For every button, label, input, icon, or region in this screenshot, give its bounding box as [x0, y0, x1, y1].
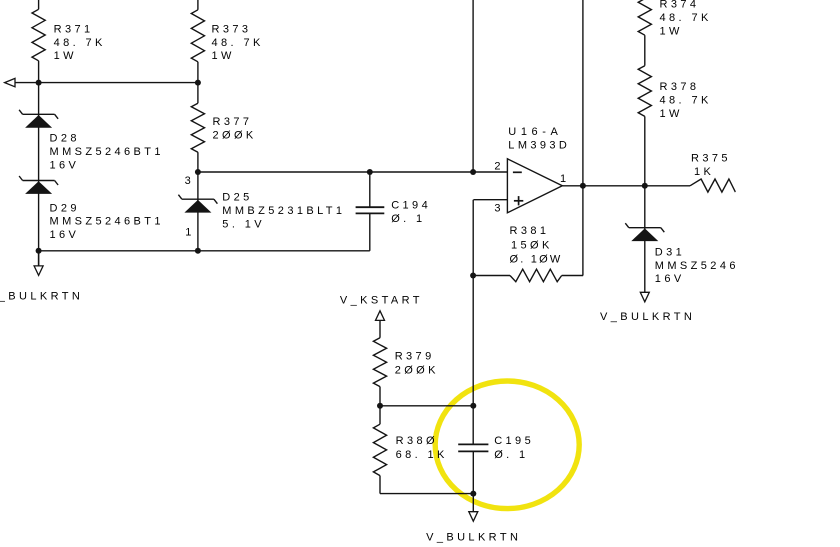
junction node 6 [36, 248, 42, 254]
svg-text:R381: R381 [510, 225, 550, 237]
junction node 9 [642, 183, 648, 189]
ground V_BULKRTN bottom [469, 512, 478, 522]
wire C194 top lead [369, 172, 371, 207]
svg-text:Ø. 1: Ø. 1 [494, 449, 528, 461]
wire node 3 horizontal to U16 pin 2 [198, 171, 508, 173]
junction node 10 [470, 273, 476, 279]
junction node 12 [470, 403, 476, 409]
wire U16 pin 3 stub [473, 199, 507, 201]
resistor R373 [191, 10, 204, 62]
resistor R381 [510, 269, 562, 282]
resistor R379 [373, 338, 386, 387]
svg-text:Ø. 1ØW: Ø. 1ØW [510, 254, 563, 266]
off-page connector arrow left [5, 78, 15, 86]
svg-text:2: 2 [494, 160, 504, 172]
svg-text:16V: 16V [50, 159, 80, 171]
junction node 1 [36, 80, 42, 86]
svg-text:48. 7K: 48. 7K [212, 37, 264, 49]
wire R378 to D31 to ground [644, 116, 646, 292]
wire R373 top lead [197, 0, 199, 10]
resistor R374 [638, 0, 651, 35]
svg-text:V_BULKRTN: V_BULKRTN [426, 532, 521, 544]
wire output node vertical [582, 0, 584, 276]
svg-text:C194: C194 [391, 200, 431, 212]
svg-text:48. 7K: 48. 7K [660, 95, 712, 107]
svg-text:R379: R379 [395, 350, 435, 362]
svg-text:48. 7K: 48. 7K [54, 37, 106, 49]
wire R377 to bottom rail through D25 [197, 152, 199, 251]
resistor R380 [373, 424, 386, 475]
zener diode D29 [19, 176, 58, 194]
wire net A horizontal [15, 82, 198, 84]
resistor R378 [638, 66, 651, 117]
wire bottom V_BULKRTN rail [39, 250, 370, 252]
wire R380 bottom node horizontal [380, 493, 473, 495]
junction node 7 [195, 248, 201, 254]
junction node 11 [377, 403, 383, 409]
svg-text:1W: 1W [54, 50, 77, 62]
svg-text:U16-A: U16-A [508, 126, 562, 138]
junction node 2 [195, 80, 201, 86]
svg-text:D28: D28 [50, 133, 80, 145]
wire vertical to minus node from top [472, 0, 474, 172]
svg-text:68. 1K: 68. 1K [396, 449, 448, 461]
zener diode D28 [19, 110, 58, 128]
svg-text:V_BULKRTN: V_BULKRTN [600, 311, 695, 323]
wire R371 top lead [38, 0, 40, 9]
svg-text:1W: 1W [660, 25, 683, 37]
svg-text:R378: R378 [660, 81, 700, 93]
svg-text:15ØK: 15ØK [511, 239, 553, 251]
svg-text:R374: R374 [660, 0, 700, 11]
svg-text:D25: D25 [222, 192, 252, 204]
resistor R377 [191, 103, 204, 152]
wire left ground stub [38, 251, 40, 266]
resistor R375 [690, 179, 735, 192]
wire R379 bottom lead [379, 387, 381, 406]
ground V_BULKRTN left [34, 266, 43, 276]
wire R380 bottom lead [379, 476, 381, 494]
op-amp U16-A [507, 159, 562, 213]
svg-text:D29: D29 [50, 202, 80, 214]
junction node 13 [470, 491, 476, 497]
capacitor C194 [356, 207, 385, 213]
svg-text:R375: R375 [691, 153, 731, 165]
svg-text:2ØØK: 2ØØK [395, 364, 439, 376]
zener diode D31 [625, 223, 664, 241]
ground V_BULKRTN right [640, 292, 649, 302]
svg-text:2ØØK: 2ØØK [213, 130, 257, 142]
svg-text:R373: R373 [212, 23, 252, 35]
svg-text:16V: 16V [50, 229, 80, 241]
wire R379 bottom node horizontal [380, 405, 473, 407]
power arrow V_KSTART [376, 311, 385, 321]
svg-text:3: 3 [494, 202, 504, 214]
wire R381 right lead [562, 275, 583, 277]
junction node 8 [580, 183, 586, 189]
svg-text:MMSZ5246BT1: MMSZ5246BT1 [50, 146, 164, 158]
wire R380 top lead [379, 406, 381, 424]
svg-text:V_KSTART: V_KSTART [340, 295, 423, 307]
yellow highlight circle around C195 [435, 381, 579, 509]
zener diode D25 [178, 195, 217, 213]
svg-text:1: 1 [560, 173, 570, 185]
svg-text:48. 7K: 48. 7K [660, 12, 712, 24]
wire C194 bottom lead [369, 213, 371, 250]
wire R373 to R377 [197, 62, 199, 103]
svg-text:R371: R371 [54, 23, 94, 35]
svg-text:MMBZ5231BLT1: MMBZ5231BLT1 [222, 205, 345, 217]
wire C195 bottom lead to ground [472, 451, 474, 511]
svg-text:Ø. 1: Ø. 1 [391, 213, 425, 225]
svg-text:3: 3 [185, 175, 195, 187]
svg-text:16V: 16V [655, 273, 685, 285]
wire R371 bottom to D28 D29 chain [38, 61, 40, 266]
svg-text:1W: 1W [212, 50, 235, 62]
capacitor C195 [458, 444, 488, 451]
svg-text:LM393D: LM393D [508, 139, 570, 151]
svg-text:R377: R377 [213, 116, 253, 128]
svg-text:R38Ø: R38Ø [396, 435, 438, 447]
svg-text:D31: D31 [655, 246, 685, 258]
svg-text:C195: C195 [494, 435, 534, 447]
junction node 3 [195, 169, 201, 175]
svg-text:V_BULKRTN: V_BULKRTN [0, 290, 83, 302]
svg-text:MMSZ5246BT1: MMSZ5246BT1 [50, 216, 164, 228]
wire U16 output to R375 [562, 185, 690, 187]
svg-text:1: 1 [185, 227, 195, 239]
svg-text:5. 1V: 5. 1V [222, 219, 265, 231]
wire R374 to R378 [644, 35, 646, 65]
wire V_KSTART arrow to R379 [379, 320, 381, 337]
junction node 4 [367, 169, 373, 175]
svg-text:1W: 1W [660, 108, 683, 120]
svg-text:1K: 1K [694, 166, 714, 178]
junction node 5 [470, 169, 476, 175]
wire R381 left lead [473, 275, 510, 277]
wire plus node vertical to C195 [472, 200, 474, 445]
resistor R371 [32, 9, 45, 61]
